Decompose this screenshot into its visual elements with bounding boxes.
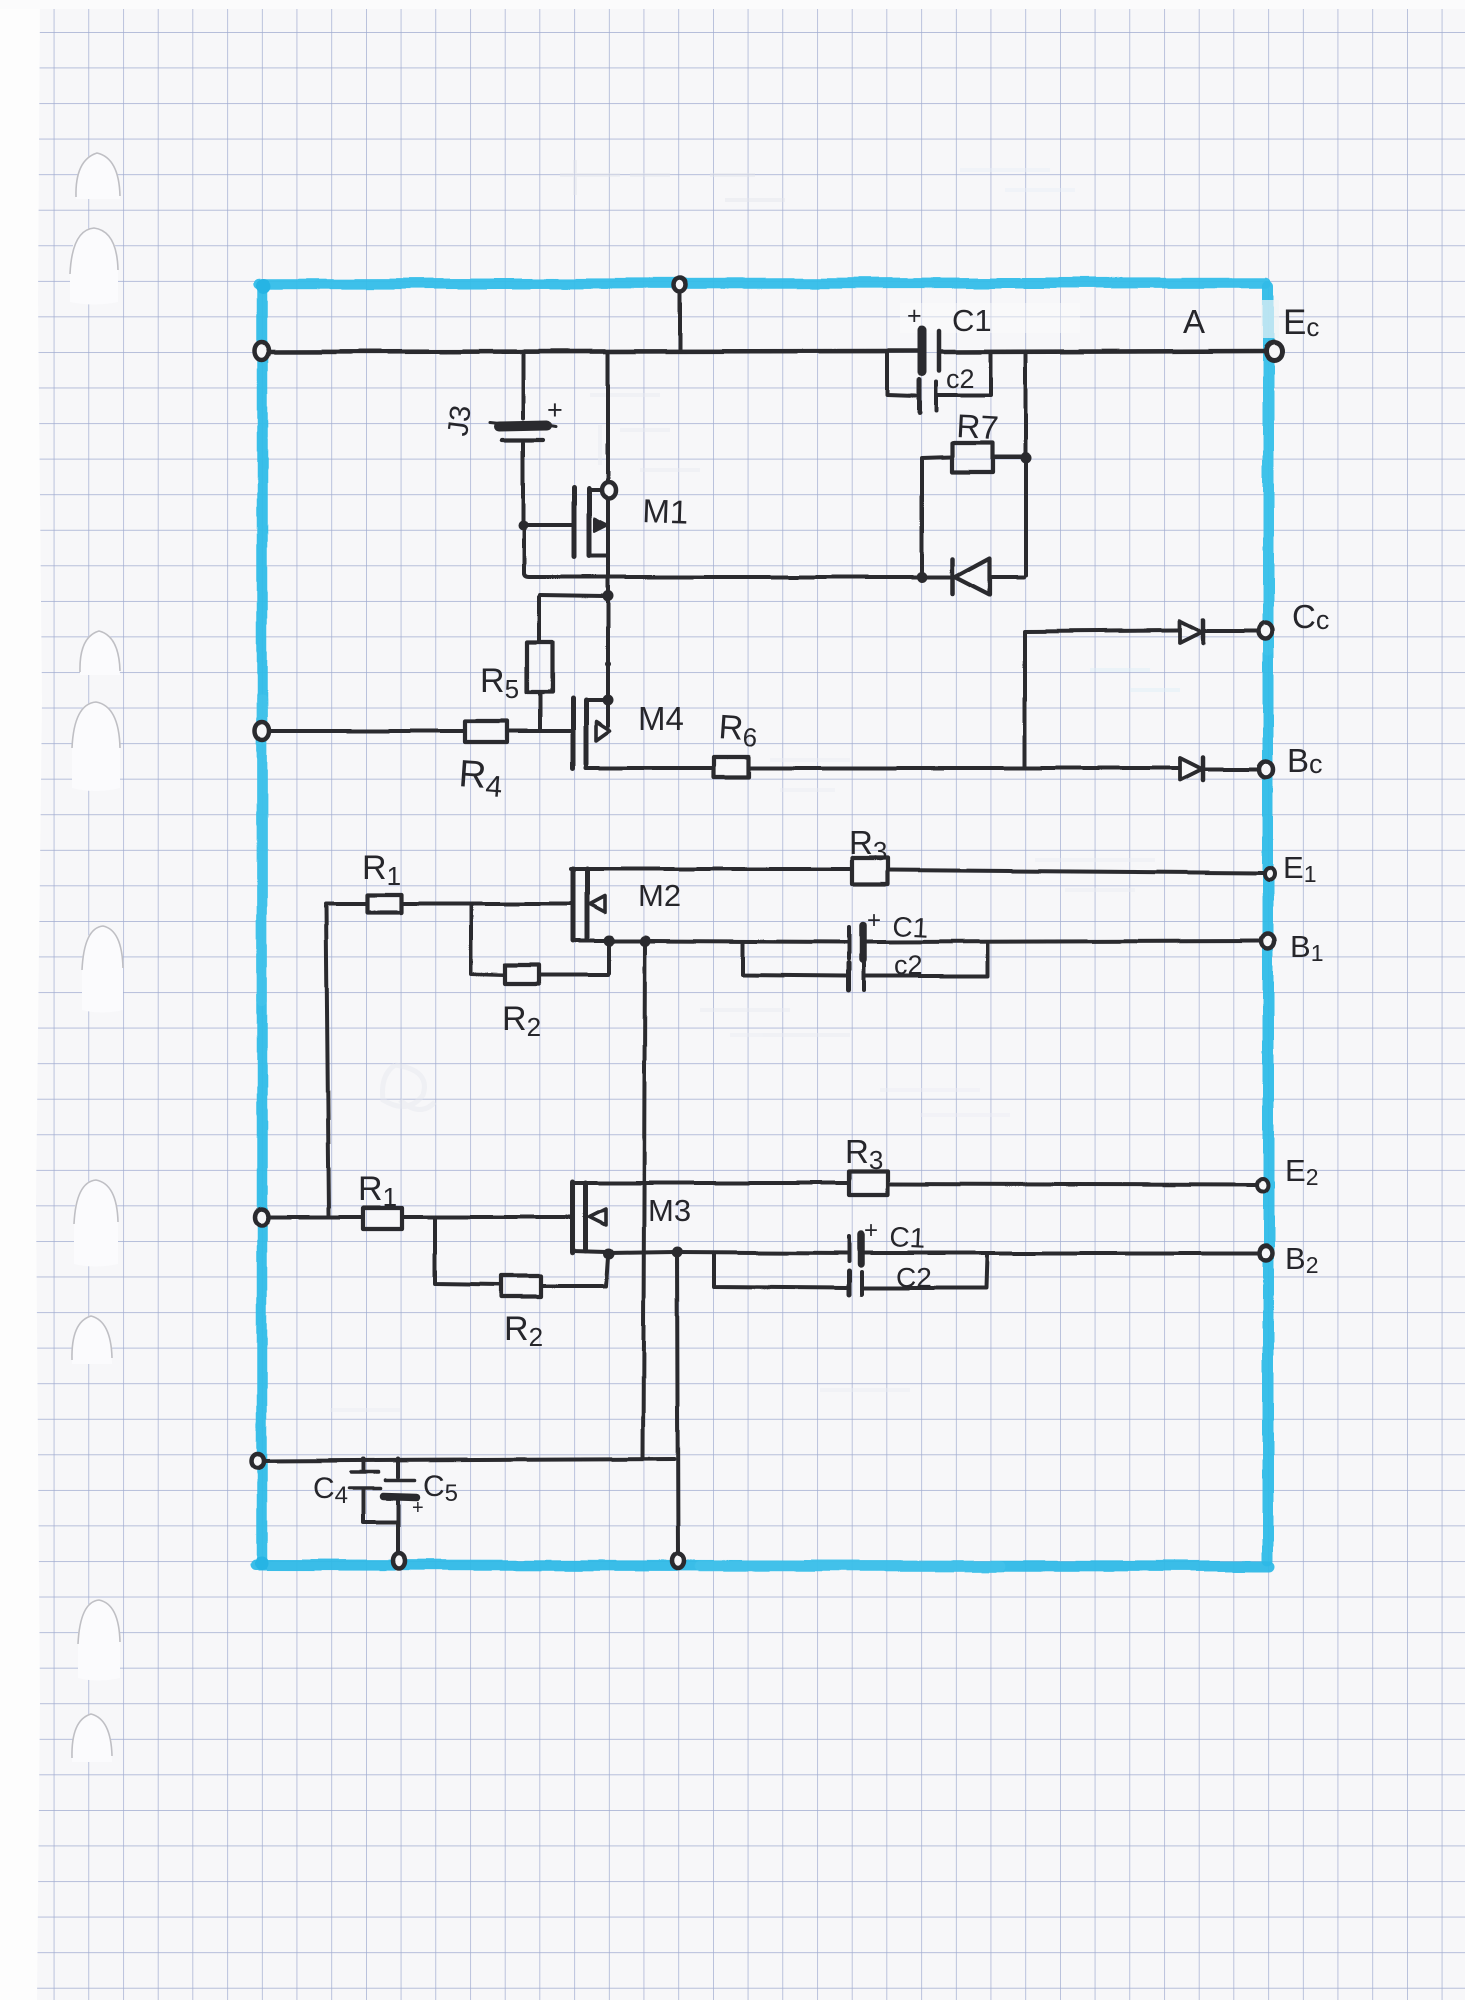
terminal Ec right	[1266, 342, 1282, 360]
label B1	[1290, 929, 1323, 966]
capacitor C2 (B1 loop)	[743, 942, 988, 990]
terminal node A top	[674, 277, 686, 291]
capacitor C5 (electrolytic)	[363, 1459, 417, 1556]
label plus C1 B1	[867, 907, 881, 934]
svg-text:M4: M4	[638, 700, 684, 737]
label plus C1 B2	[864, 1217, 878, 1244]
node small blob on M1 drain vertical	[605, 661, 611, 667]
svg-text:M3: M3	[648, 1193, 691, 1228]
wire E1 row	[571, 867, 851, 871]
svg-text:A: A	[1183, 303, 1205, 340]
terminal Ec left	[255, 342, 269, 360]
wire M2 source to B1	[609, 939, 642, 943]
svg-text:C1: C1	[892, 911, 929, 944]
svg-text:+: +	[864, 1217, 878, 1244]
terminal Cc	[1259, 623, 1273, 639]
wire left vertical link	[326, 906, 329, 1215]
label M3	[648, 1193, 691, 1228]
resistor R3 (E1)	[852, 858, 1263, 884]
node M2 source junction 2	[640, 936, 651, 947]
transistor M2	[573, 869, 606, 941]
node M3 source junction 2	[672, 1247, 683, 1258]
binder holes	[70, 153, 123, 1762]
svg-text:+: +	[547, 395, 563, 425]
wire M3 source down to bottom terminal	[677, 1254, 678, 1557]
wire battery negative to diode row	[524, 527, 950, 577]
wire M3 source to B2	[609, 1252, 675, 1253]
capacitor C2 (top, bypass loop)	[887, 353, 991, 412]
resistor R6	[714, 757, 1178, 777]
terminal B1	[1262, 934, 1275, 949]
label R7	[956, 407, 1000, 446]
label c2 (B1)	[894, 950, 923, 980]
svg-text:J3: J3	[442, 404, 477, 438]
transistor M1	[574, 488, 608, 557]
terminal ground M3	[672, 1554, 684, 1569]
node M3 source junction 1	[604, 1249, 615, 1260]
resistor R2 (lower) with branch	[435, 1217, 608, 1297]
resistor R1 (upper)	[367, 895, 571, 913]
svg-text:C2: C2	[896, 1262, 932, 1293]
label M1	[642, 492, 689, 531]
label C4	[313, 1472, 348, 1509]
label plus C1 top	[907, 302, 922, 330]
capacitor C1 (B1, electrolytic)	[849, 925, 863, 960]
label B2	[1285, 1241, 1318, 1278]
battery J3	[490, 353, 556, 522]
wire M2 source down to ground rail	[643, 943, 645, 1458]
svg-text:+: +	[907, 302, 922, 330]
node M2 source junction 1	[604, 936, 615, 947]
svg-text:M1: M1	[642, 492, 689, 531]
svg-text:c2: c2	[894, 950, 923, 980]
wire Cc branch vertical	[1025, 630, 1178, 766]
resistor R3 (E2)	[849, 1171, 1256, 1195]
label Cc	[1292, 598, 1329, 635]
label plus C5	[412, 1497, 424, 1519]
wire gate of M1	[523, 523, 572, 527]
wire input row (lower)	[264, 1215, 362, 1219]
capacitor C1 (B2, electrolytic)	[849, 1235, 861, 1264]
ghost pencil marks	[330, 160, 1180, 1410]
wire top supply rail Ec	[264, 351, 1266, 352]
label M4	[638, 700, 684, 737]
label R2 (lower)	[504, 1310, 543, 1352]
wire R1 row (upper)	[326, 902, 366, 906]
label C2 (B2)	[896, 1262, 932, 1293]
wire M4 source row	[586, 764, 713, 768]
wire right vertical to top rail	[1024, 353, 1028, 575]
label C5	[423, 1470, 458, 1507]
label R2 (upper)	[502, 1000, 541, 1042]
label R1 (upper)	[362, 849, 401, 891]
diode D3 (Bc output)	[1180, 757, 1257, 780]
terminal B2	[1260, 1246, 1273, 1261]
label node A	[1183, 303, 1205, 340]
pin M1 drain terminal circle	[602, 482, 616, 498]
label M2	[638, 878, 681, 913]
terminal E1	[1265, 868, 1275, 880]
capacitor C4	[349, 1459, 380, 1521]
terminal Bc	[1259, 761, 1273, 777]
black ink circuit	[252, 277, 1282, 1569]
left scanner margin	[0, 0, 42, 2000]
transistor M3	[573, 1182, 606, 1253]
capacitor C2 (B2 loop)	[714, 1253, 987, 1295]
wire M1 drain vertical from rail	[606, 353, 610, 698]
svg-text:+: +	[867, 907, 881, 934]
resistor R4	[465, 721, 571, 742]
label R3 (E1)	[849, 824, 887, 866]
wire R7 left vertical	[922, 457, 951, 575]
svg-text:c2: c2	[946, 364, 975, 394]
svg-text:C1: C1	[952, 303, 992, 338]
resistor R1 (lower)	[363, 1208, 571, 1229]
svg-text:M2: M2	[638, 878, 681, 913]
diode D1 (feedback, pointing left)	[953, 558, 1024, 595]
terminal ground C5	[393, 1554, 405, 1569]
node R5 top junction	[603, 591, 614, 602]
node M4 drain junction	[603, 695, 614, 706]
resistor R7	[952, 443, 1022, 472]
diode D2 (Cc output)	[1180, 620, 1257, 643]
svg-text:R7: R7	[956, 407, 1000, 446]
capacitor C1 (top, electrolytic on rail)	[922, 330, 939, 372]
label R6	[717, 708, 759, 753]
svg-text:+: +	[412, 1497, 424, 1519]
wire stub from node A terminal to top rail	[678, 290, 682, 350]
wire input Bc to gate of M4	[264, 729, 464, 733]
terminal input lower left	[256, 1209, 269, 1225]
svg-text:C1: C1	[889, 1221, 926, 1254]
label battery plus	[547, 395, 563, 425]
label R4	[457, 753, 504, 804]
label c2 (top)	[946, 364, 975, 394]
label Bc	[1287, 742, 1323, 779]
wire bottom ground rail	[260, 1459, 674, 1461]
wire B2 row	[677, 1252, 1257, 1253]
resistor R2 (upper) with branch	[471, 904, 609, 984]
label J3 (rotated)	[442, 404, 477, 438]
label E1	[1283, 850, 1316, 887]
white correction patch on right border near Ec	[1261, 300, 1279, 338]
resistor R5	[527, 597, 552, 729]
label C1 (B2)	[889, 1221, 926, 1254]
label C1 (B1)	[892, 911, 929, 944]
label Ec	[1283, 303, 1319, 342]
label R3 (E2)	[845, 1133, 883, 1175]
wire E2 row	[573, 1181, 848, 1185]
node R7 right junction	[1021, 453, 1032, 464]
transistor M4	[573, 698, 610, 768]
label C1 (top)	[952, 303, 992, 338]
wire R5 top link	[540, 595, 604, 596]
terminal Bc input left	[255, 722, 269, 740]
label R1 (lower)	[358, 1170, 397, 1212]
terminal E2	[1258, 1179, 1269, 1192]
terminal ground left	[252, 1454, 264, 1468]
node diode anode junction	[917, 572, 928, 583]
wire B1 row	[645, 941, 1260, 942]
blue highlighter border	[255, 279, 1270, 1571]
node battery/gate junction	[518, 520, 528, 530]
label R5	[480, 662, 519, 704]
label E2	[1285, 1153, 1318, 1190]
